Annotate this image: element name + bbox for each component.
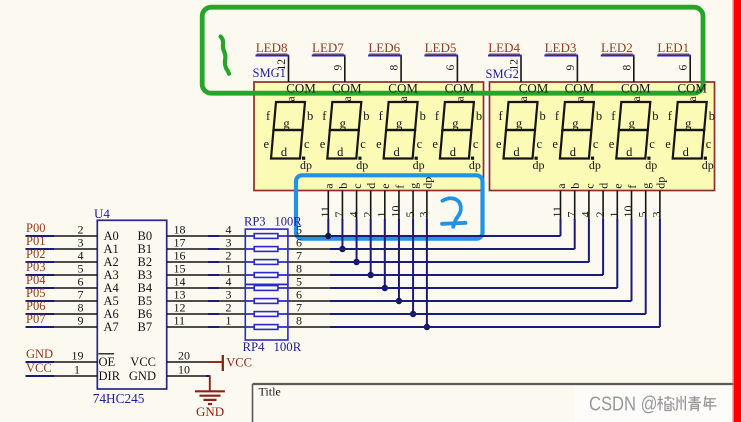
svg-text:16: 16: [174, 248, 186, 262]
svg-text:8: 8: [621, 65, 633, 71]
svg-text:9: 9: [332, 65, 344, 71]
svg-text:LED8: LED8: [256, 40, 288, 55]
svg-text:1: 1: [226, 313, 232, 327]
svg-text:f: f: [625, 185, 639, 189]
svg-text:2: 2: [360, 212, 374, 218]
svg-text:6: 6: [296, 287, 302, 301]
svg-text:COM: COM: [332, 80, 362, 95]
svg-text:4: 4: [78, 248, 84, 262]
svg-text:A5: A5: [104, 294, 119, 308]
svg-text:g: g: [340, 117, 347, 131]
svg-text:dp: dp: [420, 177, 434, 189]
svg-text:e: e: [376, 137, 382, 151]
svg-text:A4: A4: [104, 281, 120, 295]
svg-text:d: d: [626, 145, 633, 159]
svg-text:7: 7: [78, 287, 84, 301]
svg-text:e: e: [264, 137, 270, 151]
svg-text:A1: A1: [104, 242, 119, 256]
svg-text:2: 2: [226, 248, 232, 262]
svg-text:c: c: [593, 137, 599, 151]
svg-text:c: c: [649, 137, 655, 151]
svg-text:6: 6: [445, 65, 457, 71]
svg-text:g: g: [572, 117, 579, 131]
svg-text:13: 13: [174, 287, 186, 301]
svg-text:a: a: [518, 96, 530, 101]
svg-text:g: g: [406, 183, 420, 189]
svg-text:COM: COM: [388, 80, 418, 95]
svg-text:b: b: [596, 109, 602, 123]
svg-text:14: 14: [174, 274, 186, 288]
svg-text:P02: P02: [26, 247, 45, 261]
svg-text:LED1: LED1: [657, 40, 689, 55]
svg-text:P05: P05: [26, 286, 45, 300]
svg-text:U4: U4: [94, 206, 110, 221]
svg-text:g: g: [516, 117, 523, 131]
svg-text:B1: B1: [138, 242, 153, 256]
svg-text:c: c: [473, 137, 479, 151]
svg-text:d: d: [337, 145, 344, 159]
svg-text:LED7: LED7: [312, 40, 344, 55]
svg-text:g: g: [452, 117, 459, 131]
svg-text:dp: dp: [533, 158, 545, 172]
svg-text:P00: P00: [26, 221, 45, 235]
svg-text:11: 11: [174, 313, 186, 327]
svg-text:c: c: [417, 137, 423, 151]
svg-text:12: 12: [174, 300, 186, 314]
svg-text:8: 8: [78, 300, 84, 314]
svg-text:5: 5: [78, 261, 84, 275]
svg-text:d: d: [597, 183, 611, 189]
svg-text:d: d: [281, 145, 288, 159]
svg-text:CSDN @: CSDN @: [589, 394, 658, 416]
svg-text:5: 5: [296, 274, 302, 288]
svg-text:GND: GND: [26, 347, 53, 361]
svg-text:b: b: [540, 109, 546, 123]
svg-text:P01: P01: [26, 234, 45, 248]
svg-text:dp: dp: [589, 158, 601, 172]
svg-text:Title: Title: [259, 385, 281, 399]
svg-text:6: 6: [296, 235, 302, 249]
svg-text:e: e: [611, 183, 625, 188]
svg-text:dp: dp: [413, 158, 425, 172]
svg-text:d: d: [683, 145, 690, 159]
svg-text:COM: COM: [677, 80, 707, 95]
svg-text:74HC245: 74HC245: [93, 391, 145, 406]
svg-text:A6: A6: [104, 307, 119, 321]
svg-text:RP3: RP3: [244, 215, 266, 229]
svg-text:1: 1: [74, 362, 80, 376]
svg-text:3: 3: [650, 212, 664, 218]
svg-text:LED4: LED4: [488, 40, 520, 55]
svg-text:3: 3: [226, 287, 232, 301]
svg-text:4: 4: [226, 274, 232, 288]
svg-text:10: 10: [621, 206, 635, 218]
svg-text:b: b: [363, 109, 369, 123]
svg-text:6: 6: [678, 65, 690, 71]
svg-text:A3: A3: [104, 268, 119, 282]
svg-text:VCC: VCC: [226, 356, 252, 370]
svg-text:A2: A2: [104, 255, 119, 269]
svg-text:d: d: [450, 145, 457, 159]
svg-text:LED2: LED2: [601, 40, 633, 55]
svg-text:a: a: [631, 96, 643, 101]
svg-text:dp: dp: [653, 177, 667, 189]
svg-text:GND: GND: [129, 369, 156, 383]
svg-text:A7: A7: [104, 320, 119, 334]
svg-text:COM: COM: [286, 80, 316, 95]
svg-text:P03: P03: [26, 260, 45, 274]
svg-text:3: 3: [226, 235, 232, 249]
svg-text:OE: OE: [99, 355, 116, 369]
svg-text:4: 4: [226, 222, 232, 236]
svg-text:GND: GND: [196, 404, 224, 419]
svg-text:5: 5: [635, 212, 649, 218]
svg-text:B2: B2: [138, 255, 153, 269]
svg-text:1: 1: [607, 212, 621, 218]
svg-text:e: e: [432, 137, 438, 151]
svg-text:c: c: [582, 183, 596, 188]
svg-text:B3: B3: [138, 268, 153, 282]
svg-text:B0: B0: [138, 229, 153, 243]
svg-text:1: 1: [375, 212, 389, 218]
svg-text:9: 9: [78, 313, 84, 327]
svg-text:c: c: [304, 137, 310, 151]
svg-text:3: 3: [417, 212, 431, 218]
svg-text:10: 10: [389, 206, 403, 218]
svg-text:c: c: [537, 137, 543, 151]
svg-text:7: 7: [296, 248, 302, 262]
svg-text:COM: COM: [621, 80, 651, 95]
svg-text:LED5: LED5: [425, 40, 457, 55]
svg-text:19: 19: [72, 348, 84, 362]
svg-text:d: d: [364, 183, 378, 189]
svg-text:dp: dp: [645, 158, 657, 172]
svg-text:5: 5: [403, 212, 417, 218]
svg-text:b: b: [476, 109, 482, 123]
svg-text:g: g: [283, 117, 290, 131]
svg-text:8: 8: [389, 65, 401, 71]
svg-text:g: g: [629, 117, 636, 131]
svg-text:dp: dp: [702, 158, 714, 172]
svg-text:8: 8: [296, 313, 302, 327]
svg-text:a: a: [342, 96, 354, 101]
svg-text:9: 9: [565, 65, 577, 71]
svg-text:17: 17: [174, 235, 186, 249]
svg-text:SMG2: SMG2: [486, 67, 519, 81]
svg-text:b: b: [307, 109, 313, 123]
svg-text:B7: B7: [138, 320, 153, 334]
svg-text:P04: P04: [26, 273, 46, 287]
svg-text:dp: dp: [469, 158, 481, 172]
svg-text:b: b: [336, 183, 350, 189]
svg-text:e: e: [320, 137, 326, 151]
svg-text:7: 7: [332, 212, 346, 218]
svg-text:B4: B4: [138, 281, 153, 295]
svg-text:B6: B6: [138, 307, 153, 321]
svg-text:15: 15: [174, 261, 186, 275]
svg-text:11: 11: [550, 206, 564, 218]
svg-text:VCC: VCC: [26, 361, 52, 375]
svg-text:100R: 100R: [274, 340, 302, 354]
svg-text:7: 7: [564, 212, 578, 218]
svg-text:2: 2: [593, 212, 607, 218]
svg-text:dp: dp: [300, 158, 312, 172]
svg-text:18: 18: [174, 222, 186, 236]
svg-text:2: 2: [226, 300, 232, 314]
svg-text:7: 7: [296, 300, 302, 314]
svg-text:VCC: VCC: [130, 355, 156, 369]
svg-text:e: e: [552, 137, 558, 151]
svg-text:20: 20: [178, 348, 190, 362]
svg-text:b: b: [568, 183, 582, 189]
svg-text:d: d: [570, 145, 577, 159]
svg-text:b: b: [709, 109, 715, 123]
svg-text:e: e: [378, 183, 392, 188]
svg-text:3: 3: [78, 235, 84, 249]
svg-text:a: a: [574, 96, 586, 101]
svg-text:DIR: DIR: [99, 369, 121, 383]
svg-text:c: c: [360, 137, 366, 151]
svg-text:P06: P06: [26, 299, 45, 313]
svg-text:a: a: [398, 96, 410, 101]
svg-text:B5: B5: [138, 294, 153, 308]
svg-text:4: 4: [346, 212, 360, 218]
svg-text:b: b: [652, 109, 658, 123]
svg-text:COM: COM: [519, 80, 549, 95]
svg-text:COM: COM: [445, 80, 475, 95]
svg-text:8: 8: [296, 261, 302, 275]
svg-text:e: e: [665, 137, 671, 151]
svg-text:SMG1: SMG1: [253, 66, 286, 80]
svg-text:dp: dp: [356, 158, 368, 172]
svg-text:10: 10: [178, 362, 190, 376]
svg-text:c: c: [706, 137, 712, 151]
svg-text:e: e: [609, 137, 615, 151]
svg-text:a: a: [687, 96, 699, 101]
svg-text:d: d: [393, 145, 400, 159]
svg-text:g: g: [639, 183, 653, 189]
svg-text:COM: COM: [565, 80, 595, 95]
svg-text:c: c: [350, 183, 364, 188]
svg-text:LED3: LED3: [545, 40, 577, 55]
svg-text:P07: P07: [26, 312, 45, 326]
svg-text:LED6: LED6: [368, 40, 400, 55]
svg-text:A0: A0: [104, 229, 119, 243]
svg-text:2: 2: [78, 222, 84, 236]
svg-text:a: a: [454, 96, 466, 101]
svg-text:100R: 100R: [275, 215, 303, 229]
svg-text:d: d: [513, 145, 520, 159]
svg-text:e: e: [496, 137, 502, 151]
svg-text:11: 11: [318, 206, 332, 218]
svg-text:1: 1: [226, 261, 232, 275]
svg-text:RP4: RP4: [243, 340, 266, 354]
svg-text:g: g: [396, 117, 403, 131]
svg-text:6: 6: [78, 274, 84, 288]
svg-text:a: a: [322, 183, 336, 189]
svg-text:g: g: [685, 117, 692, 131]
svg-text:4: 4: [579, 212, 593, 218]
svg-text:b: b: [420, 109, 426, 123]
svg-text:a: a: [554, 183, 568, 189]
svg-text:a: a: [286, 96, 298, 101]
svg-text:f: f: [392, 185, 406, 189]
